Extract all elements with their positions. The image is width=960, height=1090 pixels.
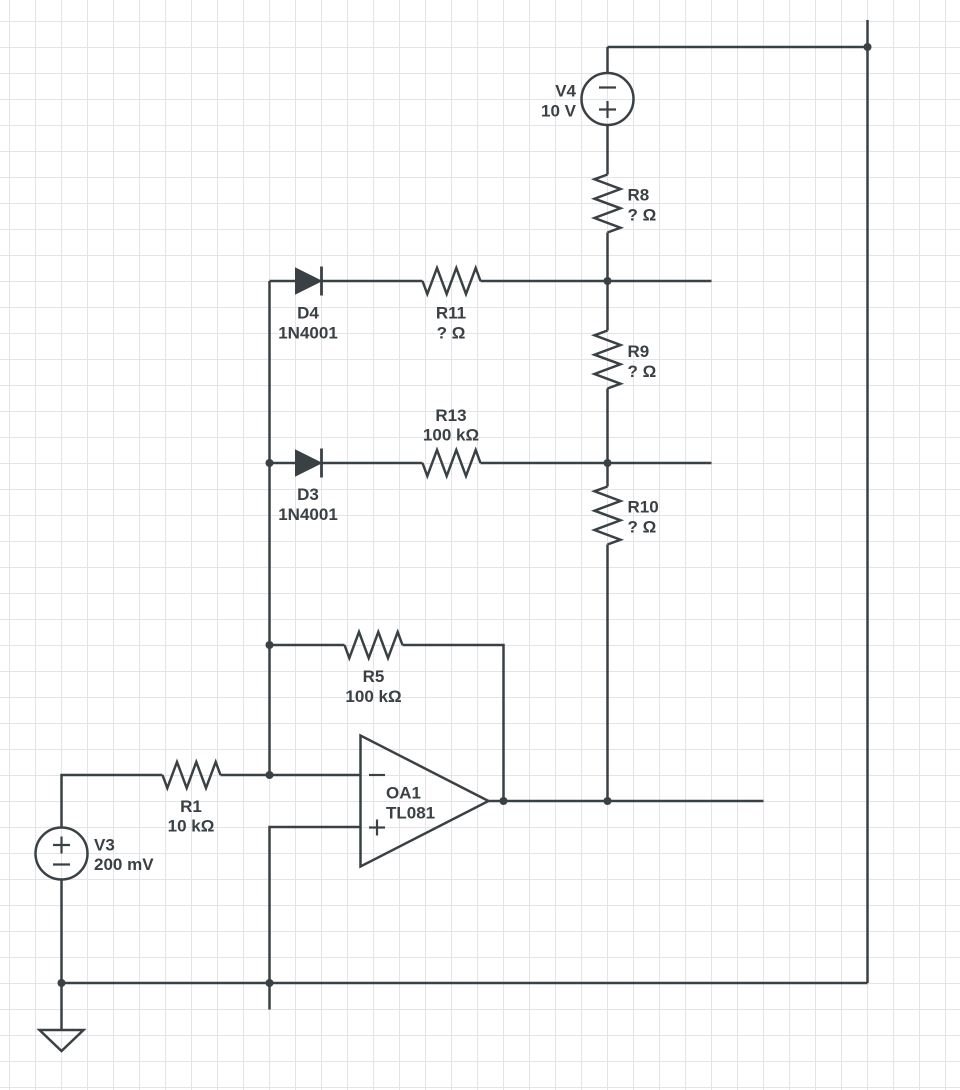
wire node to R9 [606, 281, 609, 331]
value 100 kΩ [345, 687, 401, 706]
junction inverting input node [266, 771, 274, 779]
svg-text:1N4001: 1N4001 [278, 505, 338, 524]
wire left branch vertical [268, 281, 271, 775]
svg-text:? Ω: ? Ω [628, 518, 657, 537]
value ? Ω [628, 206, 657, 225]
svg-text:R1: R1 [180, 797, 202, 816]
label R5 [363, 667, 385, 686]
resistor R11 [423, 268, 481, 294]
label V4 [555, 82, 576, 101]
value 1N4001 [278, 324, 338, 343]
svg-text:D3: D3 [297, 485, 319, 504]
wire V3 to R1 [62, 775, 163, 827]
wire R5 right lead to output [403, 645, 504, 801]
value 100 kΩ [423, 426, 479, 445]
svg-text:1N4001: 1N4001 [278, 324, 338, 343]
op-amp OA1 [361, 736, 489, 867]
svg-text:V4: V4 [555, 82, 576, 101]
wire R10 to output node [606, 545, 609, 802]
wire R5 left lead [270, 644, 345, 647]
svg-text:? Ω: ? Ω [628, 362, 657, 381]
svg-text:10 V: 10 V [541, 102, 577, 121]
wire bottom rail [62, 982, 868, 985]
wire D4 row [270, 280, 712, 283]
resistor R1 [163, 762, 221, 788]
svg-text:? Ω: ? Ω [437, 324, 466, 343]
label R1 [180, 797, 202, 816]
junction R9/R13/R10 node [604, 459, 612, 467]
voltage source V4 [582, 73, 634, 125]
voltage source V3 [36, 828, 88, 880]
resistor R5 [345, 632, 403, 658]
label R13 [435, 406, 466, 425]
wire R8 to node [606, 233, 609, 282]
svg-text:200 mV: 200 mV [94, 855, 154, 874]
svg-text:D4: D4 [297, 304, 319, 323]
label OA1 [386, 784, 421, 803]
wire D3 row [270, 462, 712, 465]
svg-text:OA1: OA1 [386, 784, 421, 803]
wire R9 to node [606, 389, 609, 464]
value 200 mV [94, 855, 154, 874]
wire node to R10 [606, 463, 609, 487]
value ? Ω [628, 362, 657, 381]
wire V4 top stem [606, 47, 609, 73]
svg-text:TL081: TL081 [386, 804, 435, 823]
label V3 [94, 836, 115, 855]
svg-text:R11: R11 [436, 304, 466, 323]
wire right rail [866, 20, 869, 983]
wire non-inverting input to bottom rail [270, 827, 361, 1010]
ground [40, 983, 84, 1051]
label R8 [628, 186, 650, 205]
junction D3 left node [266, 459, 274, 467]
wire V3 to bottom rail [60, 880, 63, 983]
svg-text:100 kΩ: 100 kΩ [345, 687, 401, 706]
svg-text:R9: R9 [628, 342, 650, 361]
junction output left [500, 797, 508, 805]
wire top horizontal [608, 46, 868, 49]
junction top right [864, 43, 872, 51]
junction R5 left node [266, 641, 274, 649]
junction R8/R11/R9 node [604, 277, 612, 285]
value TL081 [386, 804, 435, 823]
diode D3 [296, 449, 322, 478]
label R9 [628, 342, 650, 361]
svg-text:100 kΩ: 100 kΩ [423, 426, 479, 445]
label R10 [628, 498, 659, 517]
label R11 [436, 304, 466, 323]
svg-text:R10: R10 [628, 498, 659, 517]
diode D4 [296, 267, 322, 296]
junction output R10 node [604, 797, 612, 805]
resistor R10 [595, 487, 621, 545]
wire R1 to op-amp minus input [221, 774, 361, 777]
svg-text:R13: R13 [435, 406, 466, 425]
resistor R8 [595, 175, 621, 233]
resistor R9 [595, 331, 621, 389]
label D3 [297, 485, 319, 504]
value ? Ω [628, 518, 657, 537]
wire output [489, 800, 764, 803]
junction bottom rail non-inverting branch [266, 979, 274, 987]
svg-text:V3: V3 [94, 836, 115, 855]
svg-text:10 kΩ: 10 kΩ [168, 817, 215, 836]
resistor R13 [423, 450, 481, 476]
value ? Ω [437, 324, 466, 343]
svg-text:R8: R8 [628, 186, 650, 205]
svg-text:? Ω: ? Ω [628, 206, 657, 225]
value 10 V [541, 102, 577, 121]
junction ground node [58, 979, 66, 987]
svg-text:R5: R5 [363, 667, 385, 686]
label D4 [297, 304, 319, 323]
value 1N4001 [278, 505, 338, 524]
value 10 kΩ [168, 817, 215, 836]
wire V4 to R8 [606, 125, 609, 175]
